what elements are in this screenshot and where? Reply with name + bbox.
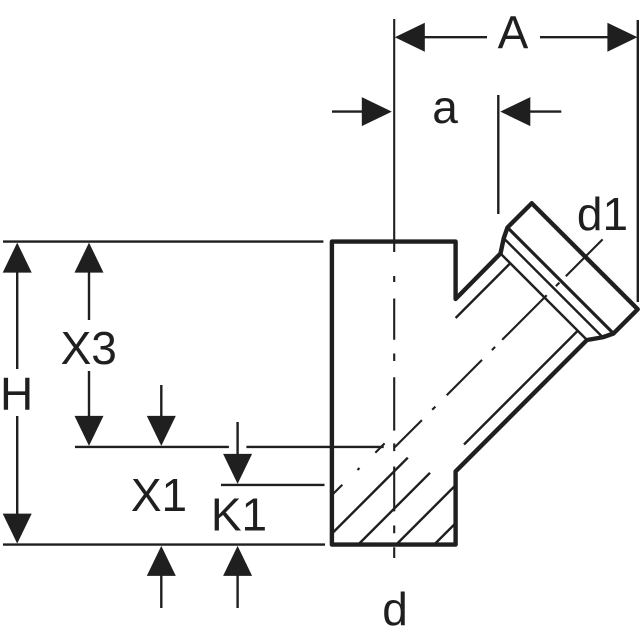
wire: H/X3 top reference line [3,240,323,242]
socket back face line [508,228,614,334]
svg-text:A: A [498,7,529,59]
svg-text:a: a [432,81,458,133]
svg-text:d: d [382,583,408,635]
wire: branch axis left segment [333,443,385,494]
svg-text:X3: X3 [61,322,117,374]
hatch line 1 [332,458,408,534]
wire: X3 bottom line [75,446,229,448]
hatch line 4 [434,523,456,545]
svg-text:K1: K1 [211,489,267,541]
wire: vertical centerline solid part [393,19,395,252]
wire: vertical centerline dash-dot [393,276,395,558]
hatch line 3 [396,485,456,545]
branch bore line upper [456,263,511,318]
wire: bottom reference line [3,543,325,545]
wire: K1 reference line [221,484,325,486]
svg-text:X1: X1 [131,469,187,521]
node X3: dimension X3 vertical [88,270,90,320]
node H: dimension H vertical [16,270,18,369]
node X1: arrows [160,385,162,418]
svg-text:H: H [0,368,33,420]
wire: extension line right of a [497,95,499,214]
svg-text:d1: d1 [577,188,628,240]
pipe fitting body outline [332,203,638,544]
node A: dimension line A [420,36,487,38]
node K1: arrows and line [236,422,238,456]
socket ring line 2 [501,254,588,341]
socket ring line 1 [504,238,603,337]
wire: extension line right of A [637,20,639,302]
branch bore line lower [464,331,578,445]
hatch line 2 [358,473,430,545]
wire: branch axis dash-dot [395,239,603,447]
node a: dimension a arrows [332,110,363,112]
